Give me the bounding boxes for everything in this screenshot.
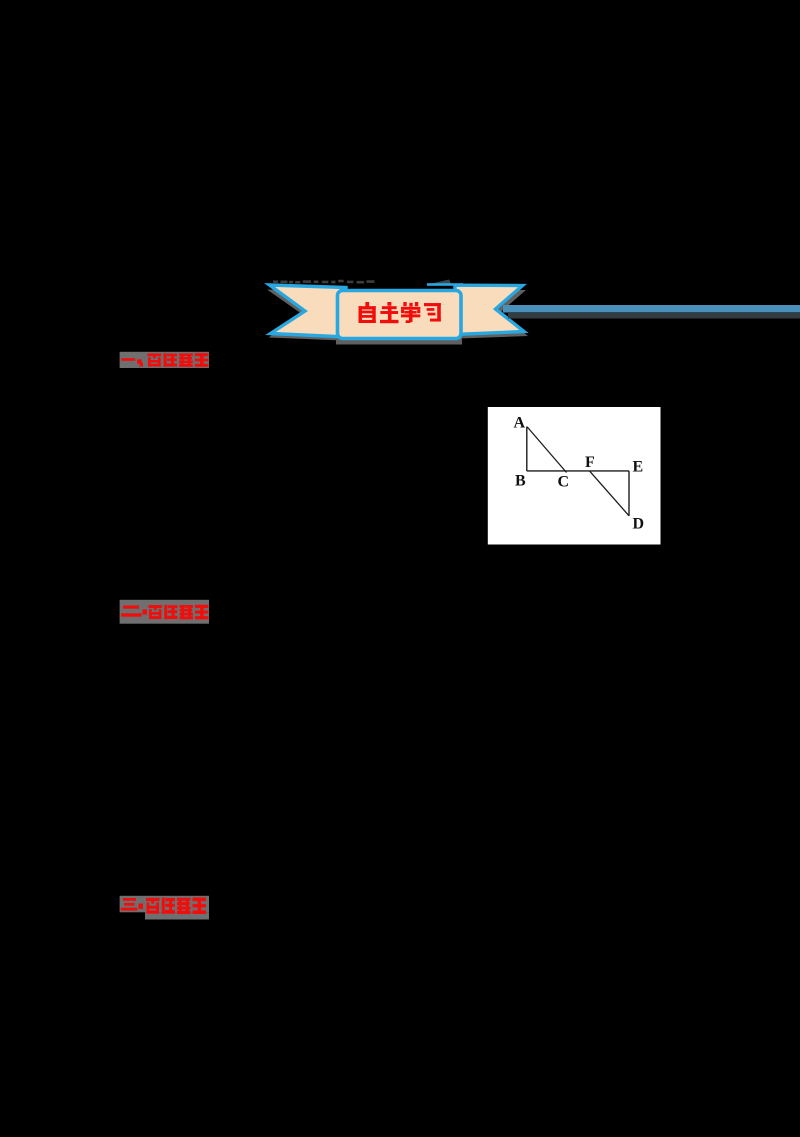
label B: [515, 473, 526, 490]
banner right ribbon wing: [455, 285, 524, 334]
banner title text: [359, 302, 441, 323]
section heading 1: [120, 352, 209, 368]
label F: [585, 454, 595, 471]
label E: [633, 459, 644, 476]
faint clipped text row above banner: [273, 280, 374, 284]
segment FD: [590, 471, 630, 516]
svg-text:A: A: [514, 415, 526, 432]
label C: [558, 474, 570, 491]
section heading 2: [120, 600, 209, 624]
svg-text:F: F: [585, 454, 595, 471]
banner central panel: [338, 291, 462, 339]
horizontal rule extending right: [503, 305, 800, 319]
label A: [514, 415, 526, 432]
svg-text:C: C: [558, 474, 570, 491]
banner left ribbon wing: [270, 285, 347, 337]
banner fold marks: [425, 280, 463, 286]
segment AC: [527, 427, 566, 473]
section heading 3: [120, 896, 209, 920]
svg-text:B: B: [515, 473, 526, 490]
banner drop shadow: [267, 290, 528, 345]
geometry figure white panel: [488, 407, 661, 545]
segment ED: [628, 471, 630, 516]
label D: [633, 516, 645, 533]
svg-text:E: E: [633, 459, 644, 476]
segment AB: [526, 427, 528, 472]
svg-text:D: D: [633, 516, 645, 533]
segment BE: [527, 470, 629, 472]
